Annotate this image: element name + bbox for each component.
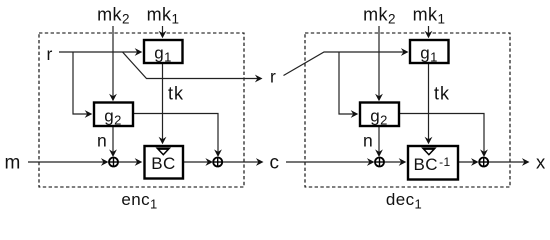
- svg-text:mk2: mk2: [363, 5, 396, 27]
- svg-text:r: r: [270, 67, 276, 87]
- svg-text:n: n: [363, 131, 373, 151]
- svg-text:c: c: [270, 153, 280, 174]
- svg-text:n: n: [97, 131, 107, 151]
- svg-text:BC: BC: [151, 154, 175, 173]
- svg-text:dec1: dec1: [386, 190, 422, 212]
- svg-text:mk1: mk1: [147, 5, 180, 27]
- svg-text:x: x: [536, 152, 546, 173]
- svg-text:mk2: mk2: [97, 5, 130, 27]
- svg-text:enc1: enc1: [121, 190, 157, 212]
- svg-text:tk: tk: [434, 84, 450, 104]
- svg-text:r: r: [47, 44, 53, 64]
- svg-text:m: m: [5, 153, 21, 174]
- svg-text:tk: tk: [168, 84, 184, 104]
- svg-text:mk1: mk1: [413, 5, 446, 27]
